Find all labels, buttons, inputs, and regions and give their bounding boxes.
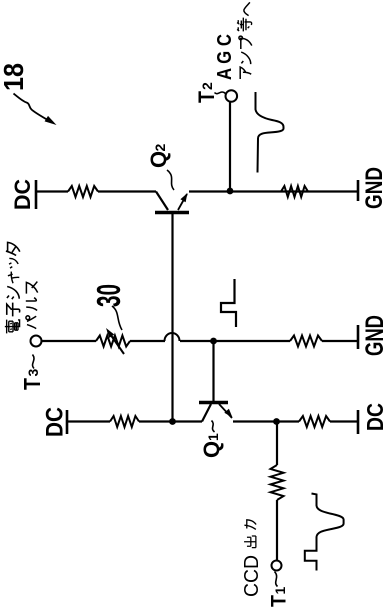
svg-text:T: T: [19, 377, 45, 390]
svg-text:DC: DC: [362, 403, 384, 431]
svg-text:3: 3: [25, 369, 41, 377]
svg-text:2: 2: [152, 144, 168, 152]
svg-text:18: 18: [0, 63, 29, 91]
svg-text:GND: GND: [361, 315, 384, 356]
svg-text:DC: DC: [10, 179, 35, 210]
svg-text:1: 1: [205, 433, 221, 441]
svg-text:Q: Q: [199, 441, 224, 458]
svg-text:A G C: A G C: [214, 34, 236, 80]
svg-text:DC: DC: [42, 407, 69, 437]
svg-text:Q: Q: [146, 151, 171, 168]
svg-text:1: 1: [272, 587, 288, 595]
svg-text:T: T: [267, 595, 291, 607]
svg-text:CCD: CCD: [241, 555, 263, 597]
svg-text:30: 30: [90, 284, 127, 307]
svg-text:GND: GND: [361, 167, 384, 209]
svg-text:2: 2: [199, 82, 215, 90]
